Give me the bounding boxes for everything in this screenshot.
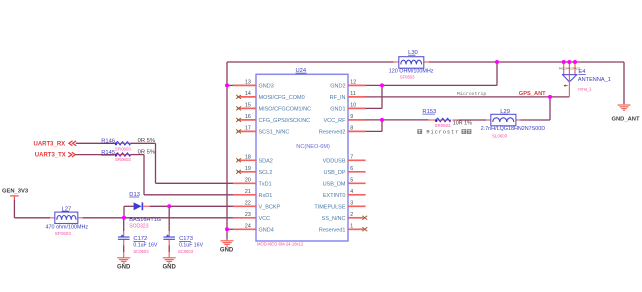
svg-text:24: 24 [245,223,251,229]
svg-text:GND: GND [117,265,131,271]
svg-text:TIMEPULSE: TIMEPULSE [314,204,346,210]
svg-text:GND1: GND1 [330,107,345,113]
svg-text:21: 21 [245,189,251,195]
svg-text:16: 16 [245,114,251,120]
svg-text:BAS16HT1G: BAS16HT1G [129,217,161,223]
svg-text:GND: GND [163,265,177,271]
svg-text:5: 5 [350,177,353,183]
svg-text:GND2: GND2 [330,84,345,90]
svg-text:SF0603: SF0603 [55,231,72,236]
svg-text:3: 3 [350,200,353,206]
svg-text:Microstr: Microstr [427,130,460,136]
svg-text:2.7nH/LQG18HN2N7S00D: 2.7nH/LQG18HN2N7S00D [481,126,546,132]
svg-text:MOD-NEO-6M-24-16x12: MOD-NEO-6M-24-16x12 [257,242,304,247]
svg-text:18: 18 [245,154,251,160]
svg-text:UART3_RX: UART3_RX [34,141,66,147]
svg-text:SDA2: SDA2 [259,158,273,164]
svg-text:GND_ANT: GND_ANT [611,117,639,123]
svg-text:VCC_RF: VCC_RF [323,118,346,124]
svg-text:470 ohm/100MHz: 470 ohm/100MHz [46,225,89,231]
svg-text:SR0603: SR0603 [115,157,131,162]
svg-text:EXTINT0: EXTINT0 [323,193,346,199]
svg-text:cona_1: cona_1 [578,86,592,91]
svg-text:GND: GND [220,247,234,253]
svg-text:PAD1PAD2PAD3: PAD1PAD2PAD3 [559,67,581,71]
svg-text:10: 10 [350,102,356,108]
svg-text:MOSI/CFG_COM0: MOSI/CFG_COM0 [259,95,305,101]
svg-text:SL0603: SL0603 [492,134,508,139]
svg-text:SF0603: SF0603 [400,75,415,80]
svg-text:10R 1%: 10R 1% [453,121,472,127]
svg-text:RxD1: RxD1 [259,193,273,199]
svg-text:22: 22 [245,200,251,206]
svg-text:Microstrip: Microstrip [457,91,486,97]
svg-text:13: 13 [245,79,251,85]
svg-text:1: 1 [350,223,353,229]
svg-text:CFG_GPS0/SCK/NC: CFG_GPS0/SCK/NC [259,118,311,124]
svg-text:GND3: GND3 [259,84,274,90]
svg-text:SC0603: SC0603 [178,249,194,254]
svg-text:120 OHM/100MHz: 120 OHM/100MHz [389,68,434,74]
svg-text:Reserved1: Reserved1 [319,227,346,233]
svg-text:11: 11 [350,91,356,97]
svg-text:VDDUSB: VDDUSB [323,158,346,164]
svg-text:GPS_ANT: GPS_ANT [519,91,546,97]
svg-text:Reserved2: Reserved2 [319,130,346,136]
svg-text:USB_DP: USB_DP [323,170,345,176]
svg-text:VCC: VCC [259,216,271,222]
svg-text:SOD323: SOD323 [129,224,148,230]
svg-text:0R 5%: 0R 5% [138,138,155,144]
svg-text:USB_DM: USB_DM [323,181,346,187]
svg-text:4: 4 [350,189,353,195]
svg-text:17: 17 [245,125,251,131]
svg-text:SCS1_N/NC: SCS1_N/NC [259,130,290,136]
svg-text:0.1uF 16V: 0.1uF 16V [179,243,203,249]
svg-text:SR0603: SR0603 [115,146,131,151]
svg-text:V_BCKP: V_BCKP [259,204,281,210]
svg-text:NC(NEO-6M): NC(NEO-6M) [296,144,330,150]
svg-text:20: 20 [245,177,251,183]
svg-text:2: 2 [350,212,353,218]
svg-text:UART3_TX: UART3_TX [35,153,66,159]
svg-text:GEN_3V3: GEN_3V3 [2,189,29,195]
svg-text:6: 6 [350,166,353,172]
svg-text:ANTENNA_1: ANTENNA_1 [578,77,611,83]
svg-text:SS_N/NC: SS_N/NC [322,216,346,222]
svg-text:SC0603: SC0603 [133,249,149,254]
svg-text:14: 14 [245,91,251,97]
svg-text:SR0603: SR0603 [435,123,451,128]
svg-text:MISO/CFGCOM1/NC: MISO/CFGCOM1/NC [259,107,312,113]
svg-text:7: 7 [350,154,353,160]
svg-text:19: 19 [245,166,251,172]
svg-text:9: 9 [350,114,353,120]
svg-text:RF_IN: RF_IN [330,95,346,101]
svg-text:15: 15 [245,102,251,108]
svg-text:0R 5%: 0R 5% [138,149,155,155]
svg-text:GND4: GND4 [259,227,274,233]
svg-text:8: 8 [350,125,353,131]
svg-text:23: 23 [245,212,251,218]
svg-text:0.1uF 16V: 0.1uF 16V [133,243,157,249]
svg-text:12: 12 [350,79,356,85]
svg-text:SCL2: SCL2 [259,170,273,176]
svg-text:TxD1: TxD1 [259,181,272,187]
